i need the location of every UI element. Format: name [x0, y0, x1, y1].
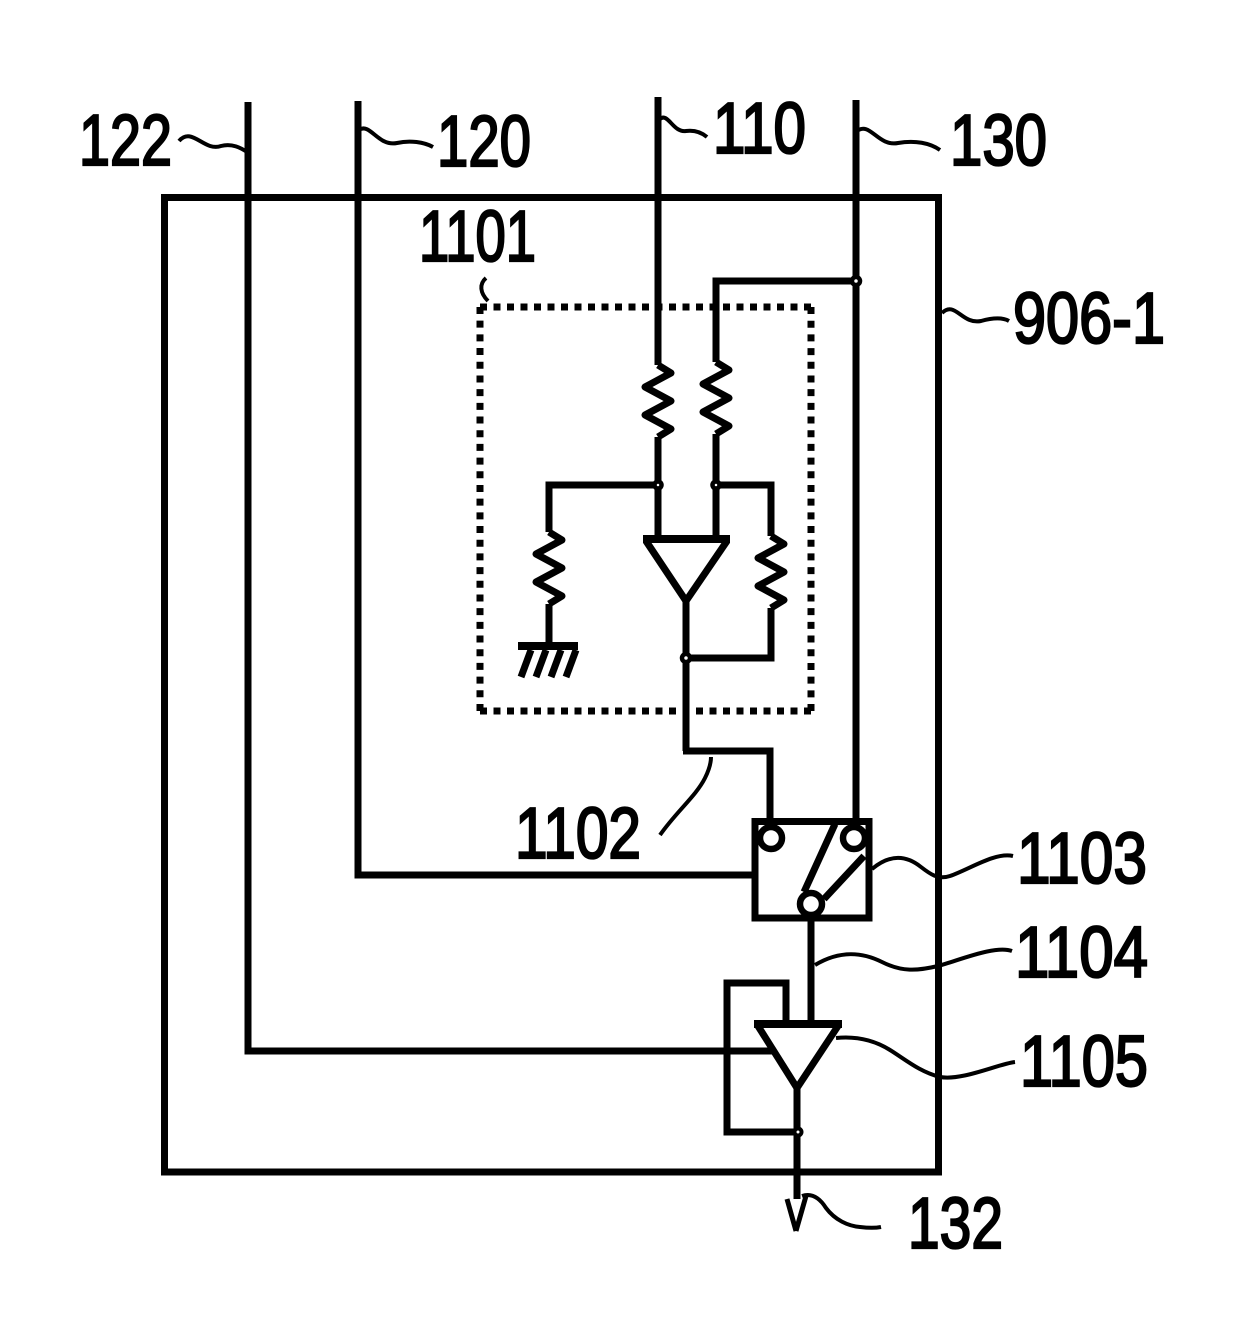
svg-text:110: 110: [713, 89, 806, 169]
comparator dotted block 1101: [480, 307, 811, 711]
wire node B to feedback resistor R3: [716, 485, 771, 536]
svg-text:1103: 1103: [1017, 819, 1147, 899]
leader 1101: [481, 278, 488, 301]
leader 1104: [815, 950, 1012, 970]
wire bus 120 (vertical + horizontal run to switch 1103): [358, 101, 753, 875]
wire from R1 to op-amp input: [655, 437, 662, 538]
svg-text:1101: 1101: [419, 197, 536, 277]
node B junction: [713, 482, 720, 489]
node output junction: [795, 1129, 802, 1136]
buffer U2 triangle 1105: [754, 1024, 842, 1088]
leader 122: [179, 136, 247, 152]
wire from 130 node to R2: [716, 281, 856, 362]
leader 906-1: [942, 309, 1009, 321]
leader 1102: [660, 757, 711, 835]
switch 1103 box: [755, 822, 869, 919]
resistor R3 feedback: [758, 536, 784, 608]
wire R3 to op-amp output: [686, 608, 771, 658]
wire bus 130 (vertical down to switch 1103): [853, 100, 860, 820]
output arrow 132: [787, 1196, 806, 1231]
switch common contact bottom: [800, 893, 822, 915]
svg-text:122: 122: [79, 101, 172, 181]
resistor R4 pulldown: [536, 532, 562, 604]
wire R4 to ground: [546, 604, 553, 646]
leader 132: [802, 1195, 881, 1228]
svg-text:1105: 1105: [1020, 1022, 1148, 1102]
svg-text:130: 130: [950, 101, 1047, 181]
svg-text:120: 120: [437, 102, 531, 182]
resistor R1 on 110 line: [645, 365, 671, 437]
leader 120: [359, 128, 433, 147]
switch lever bar: [804, 824, 864, 899]
switch pole contact top-left: [760, 827, 782, 849]
buffer output wire: [794, 1087, 801, 1199]
ground: [518, 646, 578, 677]
leader 130: [857, 129, 940, 150]
svg-text:906-1: 906-1: [1013, 279, 1165, 359]
op-amp output wire 1102: [683, 599, 770, 822]
node A junction: [655, 482, 662, 489]
leader 110: [660, 118, 707, 137]
wire from R2 to op-amp input: [713, 434, 720, 538]
svg-text:1102: 1102: [515, 794, 641, 874]
node out junction: [682, 654, 690, 662]
leader 1105: [836, 1038, 1015, 1078]
buffer bracket loop: [727, 983, 798, 1132]
wire node A to pulldown resistor: [549, 485, 658, 532]
wire bus 122 (vertical + horizontal run to buffer 1105): [248, 102, 775, 1051]
wire bus 110 (top vertical lead): [655, 97, 662, 365]
switch throw contact top-right: [843, 827, 865, 849]
wire switch to buffer 1104: [808, 919, 815, 1023]
node 130 junction: [852, 277, 860, 285]
svg-text:132: 132: [908, 1184, 1003, 1264]
outer block 906-1: [165, 198, 939, 1173]
leader 1103: [872, 855, 1013, 877]
svg-text:1104: 1104: [1015, 913, 1148, 993]
op-amp U1 triangle: [643, 539, 730, 601]
resistor R2: [703, 362, 729, 434]
